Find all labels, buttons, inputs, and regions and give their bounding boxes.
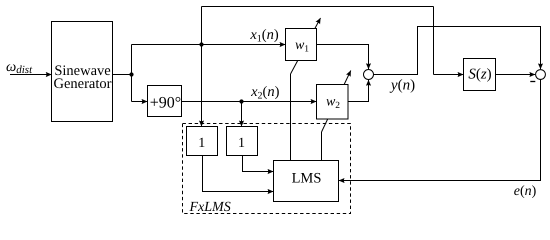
svg-text:1: 1	[238, 136, 245, 151]
summing node error	[536, 70, 546, 80]
wire: x2 horizontal from +90 into w2	[182, 101, 317, 103]
wire: w2 output right and up into summing circle	[348, 80, 369, 102]
summing node y(n)	[364, 70, 374, 80]
dashed FxLMS box	[183, 124, 351, 214]
block w2	[317, 85, 349, 120]
block LMS	[274, 161, 339, 202]
wire: e(n) feedback down and left into LMS	[339, 79, 541, 180]
wire: junction up to x1 line	[131, 45, 133, 75]
svg-text:S(z): S(z)	[468, 67, 491, 83]
wire: junction down to +90 input	[131, 75, 133, 102]
block Sinewave Generator	[52, 22, 113, 122]
wire: first 1 box down and right into LMS	[203, 156, 274, 192]
wire: w2 adaptation diagonal arrow	[322, 71, 351, 133]
wire: into S(z)	[434, 74, 464, 76]
junction dot on x1 line	[199, 42, 203, 46]
minus sign at error circle	[530, 81, 535, 83]
junction dot on x2 line	[239, 99, 243, 103]
wire: top line down to S(z) level	[433, 7, 435, 75]
wire: x2 junction down into second 1 box	[241, 102, 243, 127]
wire: x1 horizontal into w1	[132, 44, 286, 46]
block 1 (second)	[227, 127, 258, 156]
wire: x1 junction down into first 1 box	[201, 45, 203, 127]
svg-text:1: 1	[198, 136, 205, 151]
svg-text:LMS: LMS	[292, 170, 322, 186]
svg-text:x1(n): x1(n)	[249, 27, 279, 45]
wire: into +90 box	[132, 101, 148, 103]
wire: top horizontal line	[202, 6, 434, 8]
block w1	[286, 29, 317, 61]
svg-text:+90°: +90°	[150, 95, 181, 112]
block 1 (first)	[187, 127, 218, 156]
wire: S(z) output into error circle	[496, 74, 536, 76]
wire: y(n) output up over and down into error circle	[374, 27, 541, 75]
wire: w1 output right and down into summing circle	[317, 45, 369, 70]
wire: LMS up to w1 adaptation	[290, 74, 292, 161]
wire: omega_dist input arrow into Sinewave Generator	[10, 74, 52, 76]
svg-text:FxLMS: FxLMS	[189, 200, 231, 215]
wire: Sinewave Generator output to junction	[113, 74, 132, 76]
svg-text:x2(n): x2(n)	[250, 84, 280, 102]
svg-text:Generator: Generator	[54, 76, 112, 92]
wire: LMS up to w2 adaptation	[321, 132, 323, 161]
block +90	[148, 86, 182, 117]
wire: w1 adaptation diagonal arrow	[291, 18, 321, 74]
wire: second 1 box down and right into LMS	[243, 156, 274, 172]
svg-text:y(n): y(n)	[389, 78, 415, 94]
wire: x1 junction up to top line	[201, 7, 203, 45]
junction dot at sinewave output	[129, 72, 133, 76]
svg-text:e(n): e(n)	[514, 184, 537, 199]
block S(z)	[464, 59, 496, 91]
